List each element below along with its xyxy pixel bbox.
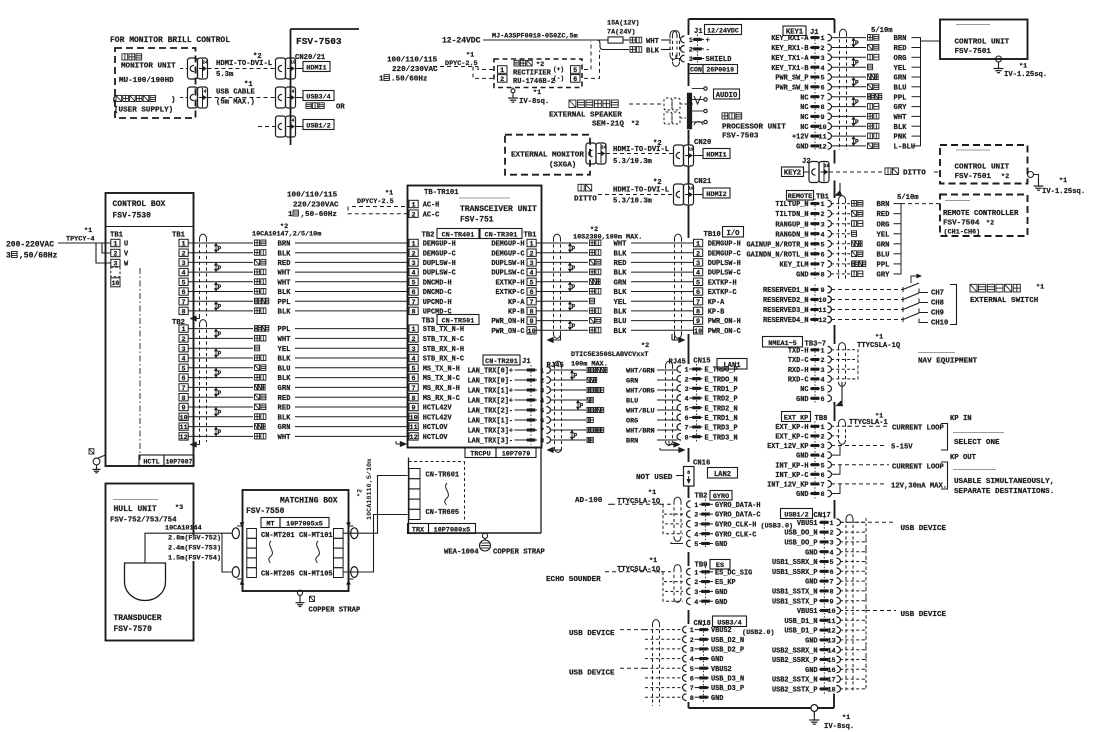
svg-text:TTYCSLA-1Q: TTYCSLA-1Q (857, 342, 901, 350)
svg-text:3: 3 (694, 589, 698, 597)
svg-text:6: 6 (182, 289, 186, 297)
svg-text:10P7087: 10P7087 (166, 459, 193, 466)
svg-text:2: 2 (540, 378, 544, 386)
svg-text:AC-C: AC-C (423, 211, 440, 219)
svg-text:MS_TX_N-H: MS_TX_N-H (423, 365, 460, 373)
svg-text:2.8m(FSV-752): 2.8m(FSV-752) (168, 535, 221, 543)
svg-text:USB DEVICE: USB DEVICE (569, 630, 615, 638)
svg-text:BLK: BLK (278, 356, 292, 364)
svg-text:1: 1 (684, 367, 688, 375)
svg-text:WEA-1004: WEA-1004 (444, 549, 479, 557)
svg-text:5: 5 (573, 67, 577, 75)
svg-text:P: P (218, 304, 222, 311)
svg-text:SEPARATE DESTINATIONS.: SEPARATE DESTINATIONS. (954, 488, 1054, 496)
svg-text:NOT USED: NOT USED (636, 474, 673, 482)
svg-text:CN-TR301: CN-TR301 (485, 232, 518, 240)
svg-text:TRCPU: TRCPU (470, 451, 490, 459)
svg-text:(+): (+) (553, 66, 564, 73)
svg-text:E_TRDO_N: E_TRDO_N (705, 376, 738, 384)
svg-text:BLK: BLK (614, 250, 628, 258)
svg-text:GRN: GRN (877, 241, 890, 249)
svg-text:4: 4 (820, 231, 824, 239)
svg-text:10CA10147,2/5/10m: 10CA10147,2/5/10m (252, 231, 321, 239)
svg-text:LAN_TRX[2]+: LAN_TRX[2]+ (468, 398, 514, 406)
svg-text:2: 2 (820, 211, 824, 219)
svg-text:RXD-H: RXD-H (788, 367, 809, 375)
svg-text:CONTROL UNIT: CONTROL UNIT (955, 164, 1010, 172)
svg-text:CONTROL BOX: CONTROL BOX (113, 200, 166, 209)
svg-text:CN-MT101: CN-MT101 (299, 532, 333, 540)
svg-text:10: 10 (827, 608, 835, 616)
svg-text:1: 1 (689, 37, 693, 45)
svg-text:2: 2 (694, 579, 698, 587)
svg-text:1: 1 (379, 76, 384, 84)
svg-text:5: 5 (412, 279, 416, 287)
svg-text:LAN_TRX[3]-: LAN_TRX[3]- (468, 438, 514, 446)
svg-text:USB1_SSTX_P: USB1_SSTX_P (772, 598, 818, 606)
svg-text:P: P (218, 370, 222, 377)
svg-text:*1: *1 (1019, 63, 1027, 71)
svg-text:GND: GND (796, 491, 808, 499)
svg-text:2: 2 (182, 250, 186, 258)
svg-text:BLK: BLK (614, 289, 628, 297)
svg-text:GYRO_DATA-H: GYRO_DATA-H (715, 502, 761, 510)
svg-text:FSV-7530: FSV-7530 (113, 212, 152, 221)
svg-text:P: P (855, 99, 859, 106)
svg-text:KP-B: KP-B (508, 309, 525, 317)
svg-text:14: 14 (827, 647, 835, 655)
svg-text:6: 6 (820, 84, 824, 92)
svg-text:RED: RED (894, 45, 908, 53)
svg-text:12: 12 (818, 317, 826, 325)
svg-text:KEY_ILM: KEY_ILM (780, 262, 809, 270)
svg-text:PPL: PPL (877, 262, 890, 270)
svg-text:1: 1 (500, 67, 504, 75)
svg-text:1: 1 (820, 35, 824, 43)
svg-text:11: 11 (827, 618, 835, 626)
svg-text:*1: *1 (842, 714, 850, 722)
svg-text:DEMGUP-H: DEMGUP-H (708, 241, 741, 249)
svg-text:P: P (855, 40, 859, 47)
svg-text:INT_12V_KP: INT_12V_KP (767, 482, 808, 490)
svg-text:YEL: YEL (278, 346, 291, 354)
svg-text:TXD-C: TXD-C (788, 357, 809, 365)
svg-text:DEMGUP-C: DEMGUP-C (708, 250, 741, 258)
svg-text:MONITOR UNIT: MONITOR UNIT (121, 63, 176, 71)
svg-text:4: 4 (540, 398, 544, 406)
svg-text:*1: *1 (648, 489, 656, 497)
svg-text:NC: NC (800, 114, 808, 122)
svg-text:*2: *2 (357, 489, 365, 497)
svg-text:WHT: WHT (278, 270, 292, 278)
svg-text:5.3/10.3m: 5.3/10.3m (613, 198, 653, 206)
svg-text:EXT_KP-H: EXT_KP-H (775, 424, 808, 432)
svg-text:ORG: ORG (877, 221, 890, 229)
svg-text:11: 11 (818, 307, 826, 315)
svg-text:1: 1 (820, 347, 824, 355)
svg-text:KP-B: KP-B (708, 309, 725, 317)
svg-text:TILTUP_N: TILTUP_N (775, 201, 808, 209)
svg-text:VBUS1: VBUS1 (797, 608, 818, 616)
svg-text:24: 24 (601, 145, 607, 151)
svg-text:GAINDN_N/ROTL_N: GAINDN_N/ROTL_N (746, 251, 808, 259)
svg-text:BLU: BLU (626, 398, 638, 406)
svg-text:MS_TX_N-C: MS_TX_N-C (423, 375, 460, 383)
svg-text:7: 7 (684, 425, 688, 433)
svg-text:4: 4 (182, 270, 186, 278)
svg-text:BLK: BLK (894, 124, 908, 132)
svg-text:RESERVED1_N: RESERVED1_N (763, 287, 809, 295)
svg-text:5: 5 (540, 408, 544, 416)
svg-text:7: 7 (412, 299, 416, 307)
svg-text:USB2_SSRX_N: USB2_SSRX_N (772, 647, 818, 655)
svg-text:CN-MT105: CN-MT105 (299, 571, 333, 579)
svg-text:1: 1 (288, 211, 293, 219)
svg-text:*2: *2 (253, 53, 262, 61)
svg-text:TRANSCEIVER UNIT: TRANSCEIVER UNIT (460, 205, 537, 214)
svg-text:4: 4 (690, 656, 694, 664)
svg-text:13: 13 (827, 638, 835, 646)
svg-text:8: 8 (182, 395, 186, 403)
svg-text:CN-TR201: CN-TR201 (485, 358, 518, 366)
svg-text:WHT/ORG: WHT/ORG (626, 388, 655, 396)
svg-text:7: 7 (540, 428, 544, 436)
svg-text:USB1_SSRX_N: USB1_SSRX_N (772, 559, 818, 567)
svg-text:AC-H: AC-H (423, 202, 440, 210)
svg-text:USB_D2_P: USB_D2_P (711, 647, 744, 655)
svg-text:EXT KP: EXT KP (784, 415, 808, 423)
svg-text:BLK: BLK (646, 47, 660, 55)
svg-text:,50-60Hz: ,50-60Hz (301, 211, 337, 219)
svg-text:1: 1 (113, 241, 117, 249)
svg-text:DEMGUP-H: DEMGUP-H (491, 241, 524, 249)
svg-text:11: 11 (410, 424, 418, 432)
svg-text:12/24VDC: 12/24VDC (707, 28, 739, 35)
svg-text:1: 1 (182, 326, 186, 334)
svg-text:TTYCSLA-1Q: TTYCSLA-1Q (617, 566, 661, 574)
svg-text:P: P (218, 331, 222, 338)
svg-text:CN-TR401: CN-TR401 (442, 232, 475, 240)
svg-text:4: 4 (820, 65, 824, 73)
svg-text:BLK: BLK (614, 328, 628, 336)
svg-text:EXTERNAL SWITCH: EXTERNAL SWITCH (970, 297, 1039, 305)
svg-text:*1: *1 (875, 334, 883, 342)
svg-text:7: 7 (530, 299, 534, 307)
svg-text:FSV-7503: FSV-7503 (296, 36, 342, 47)
svg-text:CONTROL UNIT: CONTROL UNIT (955, 39, 1010, 47)
svg-text:1: 1 (694, 502, 698, 510)
svg-text:WHT: WHT (646, 38, 660, 46)
svg-text:PWR_ON-C: PWR_ON-C (708, 328, 741, 336)
svg-text:ECHO SOUNDER: ECHO SOUNDER (546, 576, 601, 584)
svg-text:DNCMD-C: DNCMD-C (423, 289, 452, 297)
svg-text:(5m MAX.): (5m MAX.) (216, 99, 255, 107)
svg-text:EXTKP-C: EXTKP-C (496, 289, 525, 297)
svg-text:I/O: I/O (727, 230, 741, 238)
svg-text:P: P (580, 403, 584, 410)
svg-text:4: 4 (182, 356, 186, 364)
svg-text:FSV-7570: FSV-7570 (114, 625, 153, 634)
svg-text:5/10m: 5/10m (897, 194, 919, 202)
svg-text:5: 5 (696, 279, 700, 287)
svg-text:(USER SUPPLY): (USER SUPPLY) (114, 107, 173, 115)
svg-text:TB1: TB1 (110, 232, 124, 240)
svg-text:HDMI2: HDMI2 (706, 191, 726, 199)
svg-text:YEL: YEL (614, 299, 627, 307)
svg-text:J1: J1 (522, 358, 531, 366)
svg-text:CN-TR605: CN-TR605 (426, 509, 460, 517)
svg-text:12V,30mA MAX.: 12V,30mA MAX. (891, 483, 947, 491)
svg-text:KEY_RX1-B: KEY_RX1-B (771, 45, 808, 53)
svg-text:P: P (218, 390, 222, 397)
svg-text:CH10: CH10 (931, 320, 948, 328)
svg-text:2: 2 (820, 357, 824, 365)
svg-text:P: P (855, 60, 859, 67)
svg-text:GND: GND (715, 599, 727, 607)
svg-text:EXT_KP-C: EXT_KP-C (775, 434, 808, 442)
svg-text:LAN_TRX[1]-: LAN_TRX[1]- (468, 418, 514, 426)
svg-text:USB DEVICE: USB DEVICE (901, 525, 947, 533)
svg-text:BLK: BLK (278, 289, 292, 297)
svg-text:*3: *3 (175, 504, 183, 512)
svg-text:12: 12 (827, 628, 835, 636)
svg-text:BLK: BLK (614, 270, 628, 278)
svg-text:P: P (572, 265, 576, 272)
svg-text:*1: *1 (1036, 284, 1044, 292)
svg-text:7: 7 (829, 579, 833, 587)
svg-text:P: P (218, 351, 222, 358)
svg-text:6: 6 (820, 396, 824, 404)
svg-text:STB_TX_N-C: STB_TX_N-C (423, 336, 464, 344)
svg-text:10CA10144: 10CA10144 (165, 525, 202, 533)
svg-text:7: 7 (820, 94, 824, 102)
svg-text:YEL: YEL (877, 231, 890, 239)
svg-text:VBUS2: VBUS2 (711, 666, 732, 674)
svg-text:9: 9 (412, 405, 416, 413)
svg-text:2.4m(FSV-753): 2.4m(FSV-753) (168, 545, 221, 553)
svg-text:4: 4 (820, 453, 824, 461)
svg-text:11: 11 (818, 134, 826, 142)
svg-text:7: 7 (696, 299, 700, 307)
svg-text:WHT: WHT (278, 434, 292, 442)
svg-text:STB_RX_N-C: STB_RX_N-C (423, 356, 464, 364)
svg-text:MT: MT (266, 521, 274, 529)
svg-text:USABLE SIMULTANEOUSLY,: USABLE SIMULTANEOUSLY, (954, 478, 1054, 486)
svg-text:USB_D3_N: USB_D3_N (711, 676, 744, 684)
svg-text:USB DEVICE: USB DEVICE (901, 611, 947, 619)
svg-text:10: 10 (410, 414, 418, 422)
svg-text:15A(12V): 15A(12V) (607, 20, 640, 28)
svg-text:CN15: CN15 (693, 358, 710, 366)
svg-text:BRN: BRN (626, 438, 638, 446)
svg-text:CN20/21: CN20/21 (295, 54, 326, 62)
svg-text:5: 5 (530, 279, 534, 287)
svg-text:1: 1 (412, 202, 416, 210)
svg-text:*2: *2 (536, 61, 544, 69)
svg-text:GND: GND (796, 453, 808, 461)
svg-text:KP OUT: KP OUT (950, 454, 977, 462)
svg-text:GND: GND (805, 579, 817, 587)
svg-text:ES_KP: ES_KP (715, 579, 736, 587)
svg-text:GAINUP_N/ROTR_N: GAINUP_N/ROTR_N (746, 241, 808, 249)
svg-text:UPCMD-H: UPCMD-H (423, 299, 452, 307)
svg-text:1: 1 (412, 326, 416, 334)
svg-text:BLK: BLK (278, 375, 292, 383)
svg-text:E_TRD3_N: E_TRD3_N (705, 434, 738, 442)
svg-text:IV-1.25sq.: IV-1.25sq. (1004, 71, 1047, 79)
svg-text:3: 3 (6, 252, 11, 261)
svg-text:4: 4 (829, 549, 833, 557)
svg-text:1.5m(FSV-754): 1.5m(FSV-754) (168, 555, 221, 563)
svg-text:5: 5 (412, 365, 416, 373)
svg-text:DUPLSW-C: DUPLSW-C (708, 270, 741, 278)
svg-text:3: 3 (530, 260, 534, 268)
svg-text:1: 1 (820, 201, 824, 209)
svg-text:10: 10 (818, 297, 826, 305)
svg-text:16: 16 (827, 667, 835, 675)
svg-text:5: 5 (820, 462, 824, 470)
svg-text:TRANSDUCER: TRANSDUCER (114, 614, 162, 623)
svg-text:2: 2 (412, 250, 416, 258)
svg-text:BLK: BLK (614, 309, 628, 317)
svg-text:E_TRD1_P: E_TRD1_P (705, 386, 738, 394)
svg-text:*1: *1 (1059, 177, 1067, 185)
svg-text:100/110/115: 100/110/115 (287, 192, 338, 200)
svg-text:8: 8 (687, 470, 690, 476)
svg-text:KEY_RX1-A: KEY_RX1-A (771, 35, 809, 43)
svg-text:NAV EQUIPMENT: NAV EQUIPMENT (918, 358, 978, 366)
svg-text:REMOTE: REMOTE (788, 193, 812, 201)
svg-text:10: 10 (112, 280, 120, 287)
svg-text:TRX: TRX (412, 527, 425, 535)
svg-text:BLK: BLK (278, 414, 292, 422)
svg-text:GYRO: GYRO (713, 493, 729, 501)
svg-text:CN16: CN16 (693, 460, 710, 468)
svg-text:*2: *2 (641, 342, 649, 350)
svg-text:LAN_TRX[2]-: LAN_TRX[2]- (468, 408, 514, 416)
svg-text:DITTO: DITTO (903, 170, 926, 178)
svg-text:(USB3.0): (USB3.0) (761, 523, 794, 531)
svg-text:RED: RED (278, 260, 292, 268)
svg-text:BLK: BLK (278, 309, 292, 317)
svg-text:TB-TR101: TB-TR101 (424, 189, 459, 197)
svg-text:3: 3 (820, 443, 824, 451)
svg-text:ES_DC_SIG: ES_DC_SIG (715, 569, 752, 577)
svg-text:4: 4 (412, 270, 416, 278)
svg-text:PWR_SW_N: PWR_SW_N (775, 84, 808, 92)
svg-text:19: 19 (688, 186, 694, 192)
svg-text:J1: J1 (694, 28, 703, 36)
svg-text:CN-TR601: CN-TR601 (426, 472, 460, 480)
svg-text:5: 5 (829, 559, 833, 567)
svg-text:10: 10 (818, 124, 826, 132)
svg-text:DNCMD-H: DNCMD-H (423, 279, 452, 287)
svg-text:220/230VAC: 220/230VAC (392, 66, 438, 74)
svg-text:LAN_TRX[0]-: LAN_TRX[0]- (468, 378, 514, 386)
svg-text:8: 8 (820, 104, 824, 112)
svg-text:4: 4 (696, 270, 700, 278)
svg-text:8: 8 (820, 272, 824, 280)
svg-text:TTYCSLA-1: TTYCSLA-1 (849, 419, 889, 427)
svg-text:GRN: GRN (278, 424, 291, 432)
svg-text:USB1_SSTX_N: USB1_SSTX_N (772, 589, 818, 597)
svg-text:RESERVED4_N: RESERVED4_N (763, 317, 809, 325)
svg-text:RECTIFIER: RECTIFIER (513, 70, 552, 78)
svg-text:TB1: TB1 (172, 232, 186, 240)
svg-text:*1: *1 (649, 557, 657, 565)
svg-text:P: P (218, 284, 222, 291)
svg-text:*1: *1 (466, 52, 474, 60)
svg-text:AUDIO: AUDIO (716, 92, 738, 100)
svg-text:P: P (572, 304, 576, 311)
svg-text:200-220VAC: 200-220VAC (6, 241, 54, 250)
svg-text:PPL: PPL (278, 326, 291, 334)
svg-text:P: P (855, 139, 859, 146)
svg-text:6: 6 (829, 569, 833, 577)
svg-text:IV-8sq.: IV-8sq. (824, 723, 854, 731)
svg-text:E_TRD2_P: E_TRD2_P (705, 396, 738, 404)
svg-text:1: 1 (829, 520, 833, 528)
svg-text:19: 19 (290, 60, 296, 66)
svg-text:PPL: PPL (894, 94, 907, 102)
svg-text:5: 5 (690, 666, 694, 674)
svg-text:5: 5 (684, 405, 688, 413)
svg-text:TPYCY-4: TPYCY-4 (66, 236, 95, 244)
svg-text:5: 5 (820, 75, 824, 83)
svg-text:KP-A: KP-A (708, 299, 725, 307)
svg-text:GND: GND (711, 695, 723, 703)
svg-text:3: 3 (690, 647, 694, 655)
svg-text:PWR_ON-H: PWR_ON-H (708, 318, 741, 326)
svg-text:USB1_SSRX_P: USB1_SSRX_P (772, 569, 818, 577)
svg-text:3: 3 (829, 540, 833, 548)
svg-text:P: P (218, 245, 222, 252)
svg-text:*2: *2 (653, 140, 662, 148)
svg-text:9: 9 (820, 114, 824, 122)
svg-text:GYRO_DATA-C: GYRO_DATA-C (715, 512, 761, 520)
svg-text:TXD-H: TXD-H (788, 347, 809, 355)
svg-text:KEY_TX1-B: KEY_TX1-B (771, 65, 808, 73)
svg-text:HDMI1: HDMI1 (706, 152, 726, 160)
svg-text:WHT/BRN: WHT/BRN (626, 428, 655, 436)
svg-text:GYRO_CLK-H: GYRO_CLK-H (715, 522, 756, 530)
svg-text:WHT: WHT (278, 279, 292, 287)
svg-text:CON: CON (690, 67, 702, 74)
svg-text:DUPLSW-C: DUPLSW-C (491, 270, 524, 278)
svg-text:P: P (572, 284, 576, 291)
svg-text:7: 7 (412, 385, 416, 393)
svg-text:GND: GND (715, 541, 727, 549)
svg-text:24: 24 (202, 60, 208, 66)
svg-text:DPYCY-2.5: DPYCY-2.5 (357, 198, 394, 206)
svg-text:*1: *1 (533, 89, 541, 97)
svg-text:RANGDN_N: RANGDN_N (775, 231, 808, 239)
svg-text:DEMGUP-C: DEMGUP-C (423, 250, 456, 258)
svg-text:HCTL42V: HCTL42V (423, 414, 453, 422)
svg-text:HCTL: HCTL (143, 459, 159, 467)
svg-text:GRY: GRY (894, 104, 908, 112)
svg-text:3: 3 (182, 346, 186, 354)
svg-text:USB1/2: USB1/2 (306, 123, 330, 131)
svg-text:MS_RX_N-C: MS_RX_N-C (423, 395, 460, 403)
svg-text:CN-MT205: CN-MT205 (261, 571, 295, 579)
svg-text:CURRENT LOOP: CURRENT LOOP (892, 425, 944, 433)
svg-text:RU-1746B-2: RU-1746B-2 (513, 78, 555, 86)
svg-text:2: 2 (829, 530, 833, 538)
svg-text:10: 10 (694, 328, 702, 336)
svg-text:FOR MONITOR BRILL CONTROL: FOR MONITOR BRILL CONTROL (110, 36, 230, 45)
svg-text:P: P (574, 433, 578, 440)
